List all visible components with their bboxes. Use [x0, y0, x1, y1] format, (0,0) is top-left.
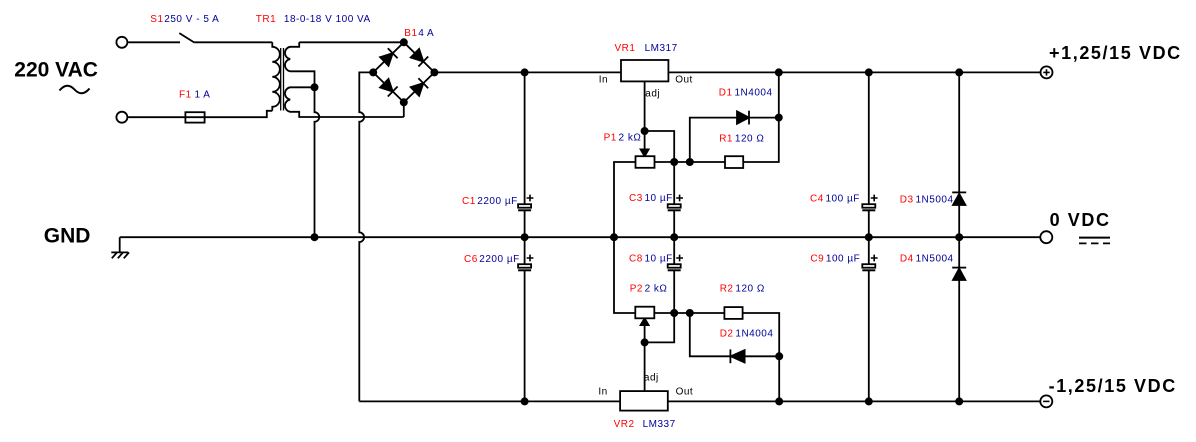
svg-text:D31N5004: D31N5004 [900, 195, 954, 206]
capacitor C3 [668, 162, 683, 237]
label C8 value [629, 254, 673, 265]
diode D2 [690, 313, 779, 363]
label R1 value [719, 134, 764, 145]
potentiometer P1 wiper arrow [641, 131, 649, 156]
diode D3 [952, 72, 966, 237]
DC symbol [1079, 238, 1110, 244]
svg-text:C310 µF: C310 µF [629, 193, 673, 204]
bridge diode top-left [380, 48, 398, 66]
label C6 value [464, 254, 520, 265]
svg-text:220 VAC: 220 VAC [14, 59, 98, 82]
svg-text:D21N4004: D21N4004 [720, 328, 774, 339]
label D2 value [720, 328, 774, 339]
label S1 value [150, 14, 219, 25]
node center tap [311, 84, 317, 90]
bridge diode top-right [411, 49, 429, 67]
node pot right D1 branch [687, 159, 693, 165]
wire negative rail [359, 400, 1040, 402]
svg-text:D41N5004: D41N5004 [900, 253, 954, 264]
ground symbol [111, 237, 129, 258]
svg-text:-1,25/15 VDC: -1,25/15 VDC [1049, 376, 1177, 396]
terminal AC bottom [116, 112, 127, 123]
diode D4 [952, 237, 966, 401]
label VR1 LM317 [615, 43, 678, 54]
label 220 VAC [14, 59, 98, 82]
label VR2 In [598, 386, 607, 397]
svg-text:R2120 Ω: R2120 Ω [720, 284, 765, 295]
label F1 value [179, 90, 210, 101]
node R1 D1 rail [776, 69, 782, 75]
node P2 wiper junction [642, 339, 648, 345]
svg-text:Out: Out [675, 75, 693, 86]
wire bridge bottom vertex [403, 102, 405, 117]
node D4 bottom [956, 398, 962, 404]
label D3 value [900, 195, 954, 206]
node P2 right D2 branch [687, 310, 693, 316]
label P2 value [630, 284, 668, 295]
svg-text:C810 µF: C810 µF [629, 254, 673, 265]
label B1 value [404, 28, 434, 39]
label C4 value [810, 194, 860, 205]
wire adj to pot right node [645, 131, 675, 162]
potentiometer P2 body [635, 307, 654, 319]
wire R1 right up to positive rail [743, 72, 779, 162]
svg-text:F11 A: F11 A [179, 90, 210, 101]
capacitor C4 [862, 72, 877, 237]
svg-text:adj: adj [644, 373, 659, 384]
svg-text:VR2LM337: VR2LM337 [614, 419, 676, 430]
bridge diode bottom-left [380, 79, 398, 97]
terminal zero volt output [1040, 231, 1052, 243]
svg-text:adj: adj [645, 89, 660, 100]
wire P1 right to R1 [655, 161, 726, 163]
svg-text:Out: Out [676, 386, 694, 397]
potentiometer P2 wiper arrow [641, 318, 649, 342]
node C1 top [522, 69, 528, 75]
node pot right C3 [671, 159, 677, 165]
node D1 cathode junction [776, 115, 782, 121]
wire bottom AC line [127, 111, 272, 117]
svg-text:0 VDC: 0 VDC [1050, 210, 1111, 230]
node bridge top [401, 39, 407, 45]
node C8 bottom pot right [671, 310, 677, 316]
label TR1 value [256, 14, 371, 25]
AC sine symbol [60, 86, 90, 94]
wire pot right node to wiper node P2 [645, 313, 675, 342]
node bridge left [370, 69, 376, 75]
wire R2 right down to negative rail [743, 313, 780, 401]
svg-text:C4100 µF: C4100 µF [810, 194, 860, 205]
label VR2 LM337 [614, 419, 676, 430]
label VR2 adj [644, 373, 659, 384]
potentiometer P1 body [636, 156, 655, 168]
transformer TR1 primary [272, 42, 280, 111]
label C3 value [629, 193, 673, 204]
node D2 cathode junction [776, 353, 782, 359]
capacitor C9 [862, 237, 877, 401]
wire top AC line [127, 41, 180, 43]
node C9 bottom [866, 398, 872, 404]
label VR1 In [599, 75, 608, 86]
label D4 value [900, 253, 954, 264]
capacitor C1 [518, 72, 533, 237]
label zero output [1050, 210, 1111, 230]
diode D1 [690, 111, 779, 162]
label positive output [1049, 43, 1182, 63]
node C3 ground [671, 234, 677, 240]
terminal positive output [1041, 66, 1053, 78]
svg-text:In: In [598, 386, 607, 397]
svg-text:R1120 Ω: R1120 Ω [719, 134, 764, 145]
svg-text:VR1LM317: VR1LM317 [615, 43, 678, 54]
node VR1 adj junction [642, 128, 648, 134]
regulator VR1 box [621, 60, 668, 81]
svg-text:C9100 µF: C9100 µF [810, 254, 860, 265]
wire P1 left to P2 left [614, 162, 636, 313]
svg-text:P12 kΩ: P12 kΩ [604, 132, 642, 143]
wire VR1 adj [644, 81, 646, 131]
svg-text:GND: GND [44, 225, 91, 248]
svg-text:In: In [599, 75, 608, 86]
wire P2 right to R2 [654, 312, 724, 314]
svg-text:TR118-0-18 V 100 VA: TR118-0-18 V 100 VA [256, 14, 371, 25]
node center tap ground rail [311, 234, 317, 240]
node bridge bottom [401, 99, 407, 105]
svg-text:C12200 µF: C12200 µF [462, 196, 518, 207]
wire VR2 adj [644, 342, 646, 391]
regulator VR2 box [620, 391, 668, 411]
node C4 C9 ground [866, 234, 872, 240]
node C1 C6 ground [522, 234, 528, 240]
node R2 D2 rail [776, 398, 782, 404]
node D3 top [956, 69, 962, 75]
label VR1 Out [675, 75, 693, 86]
node ground rail P-left [611, 234, 617, 240]
wire bridge left to negative rail with hops [359, 72, 373, 401]
label C9 value [810, 254, 860, 265]
wire center tap to ground rail with hop [315, 87, 320, 237]
resistor R2 [724, 307, 742, 319]
label C1 value [462, 196, 518, 207]
node D3 D4 ground [956, 234, 962, 240]
node bridge right [431, 69, 437, 75]
svg-text:C62200 µF: C62200 µF [464, 254, 520, 265]
label GND [44, 225, 91, 248]
wire ground rail [120, 236, 1041, 238]
label D1 value [719, 88, 773, 99]
capacitor C6 [518, 237, 533, 401]
svg-text:S1250 V - 5 A: S1250 V - 5 A [150, 14, 219, 25]
label negative output [1049, 376, 1177, 396]
transformer TR1 core [281, 48, 284, 111]
label VR2 Out [676, 386, 694, 397]
bridge diode bottom-right [411, 78, 429, 96]
resistor R1 [725, 156, 743, 168]
svg-text:+1,25/15 VDC: +1,25/15 VDC [1049, 43, 1182, 63]
svg-text:D11N4004: D11N4004 [719, 88, 773, 99]
svg-text:P22 kΩ: P22 kΩ [630, 284, 668, 295]
label P1 value [604, 132, 642, 143]
capacitor C8 [668, 237, 683, 313]
node C6 bottom [522, 398, 528, 404]
transformer TR1 secondary bottom winding [285, 87, 404, 117]
node C4 top [866, 69, 872, 75]
terminal AC top [116, 37, 127, 48]
svg-text:B14 A: B14 A [404, 28, 434, 39]
wire positive rail [434, 71, 1040, 73]
terminal negative output [1040, 395, 1052, 407]
wire secondary top to bridge [299, 41, 404, 43]
fuse F1 [185, 112, 204, 122]
switch S1 [179, 33, 272, 42]
transformer TR1 secondary top winding [285, 42, 315, 87]
bridge rectifier B1 diamond [373, 42, 434, 102]
label R2 value [720, 284, 765, 295]
label VR1 adj [645, 89, 660, 100]
